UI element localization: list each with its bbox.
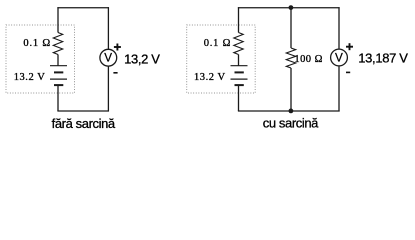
wire top rail right circuit bbox=[238, 7, 340, 9]
wire bottom rail left circuit bbox=[57, 110, 109, 112]
voltmeter V (right circuit) bbox=[331, 49, 348, 66]
svg-text:13.2 V: 13.2 V bbox=[14, 72, 46, 83]
plus sign (right voltmeter) bbox=[346, 43, 353, 50]
svg-text:100 Ω: 100 Ω bbox=[294, 54, 322, 65]
wire left branch upper (right circuit) bbox=[238, 7, 240, 32]
plus sign (left voltmeter) bbox=[114, 44, 121, 51]
svg-text:13,2 V: 13,2 V bbox=[124, 52, 160, 67]
resistor 0.1 ohm (right circuit) bbox=[234, 33, 243, 55]
wire left branch upper (left circuit) bbox=[57, 7, 59, 32]
wire right branch upper (right circuit) bbox=[338, 7, 340, 49]
wire middle branch upper (right circuit) bbox=[290, 8, 292, 48]
svg-text:V: V bbox=[104, 52, 112, 65]
svg-text:0.1 Ω: 0.1 Ω bbox=[23, 38, 51, 49]
wire middle branch lower (right circuit) bbox=[290, 68, 292, 111]
svg-text:fără sarcină: fără sarcină bbox=[52, 116, 116, 131]
svg-text:13.2 V: 13.2 V bbox=[194, 72, 226, 83]
svg-text:0.1 Ω: 0.1 Ω bbox=[204, 38, 232, 49]
voltmeter V (left circuit) bbox=[100, 49, 117, 66]
wire bottom rail right circuit bbox=[238, 110, 340, 112]
resistor 0.1 ohm (left circuit) bbox=[53, 33, 62, 55]
resistor 100 ohm (right circuit) bbox=[286, 48, 295, 68]
minus sign (left voltmeter) bbox=[113, 72, 117, 74]
dashed box battery internal (right circuit) bbox=[187, 25, 256, 93]
wire battery to bottom rail (right circuit) bbox=[238, 85, 240, 111]
wire between resistor and battery (left circuit) bbox=[57, 55, 59, 66]
wire top rail left circuit bbox=[57, 7, 109, 9]
battery 13.2 V (left circuit) bbox=[50, 66, 67, 85]
minus sign (right voltmeter) bbox=[346, 71, 350, 73]
dashed box battery internal (left circuit) bbox=[6, 25, 75, 93]
wire right branch lower (left circuit) bbox=[107, 66, 109, 112]
junction dot bottom (right circuit) bbox=[289, 109, 294, 114]
junction dot top (right circuit) bbox=[289, 5, 294, 10]
svg-text:13,187 V: 13,187 V bbox=[358, 51, 408, 66]
wire between resistor and battery (right circuit) bbox=[238, 55, 240, 66]
battery 13.2 V (right circuit) bbox=[231, 66, 248, 85]
svg-text:cu sarcină: cu sarcină bbox=[263, 116, 319, 131]
wire right branch upper (left circuit) bbox=[107, 7, 109, 49]
svg-text:V: V bbox=[335, 52, 343, 65]
wire right branch lower (right circuit) bbox=[338, 66, 340, 112]
wire battery to bottom rail (left circuit) bbox=[57, 85, 59, 111]
